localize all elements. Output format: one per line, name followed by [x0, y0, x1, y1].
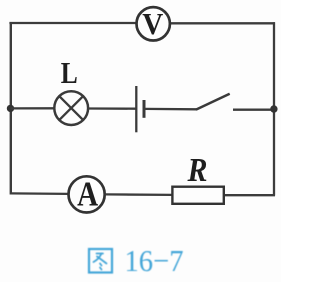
wire: switch to right rail	[233, 109, 275, 111]
wire: top rail right segment	[171, 22, 275, 24]
wire: ammeter to resistor	[106, 193, 173, 196]
battery cell	[136, 86, 144, 132]
node: right junction	[270, 105, 277, 112]
wire: resistor to right rail	[225, 194, 275, 196]
wire: bottom rail left segment	[11, 192, 68, 195]
wire: right rail	[273, 22, 275, 195]
caption glyph 图 (drawn)	[89, 249, 112, 273]
svg-text:16−7: 16−7	[125, 243, 184, 278]
switch S (open blade)	[196, 94, 230, 110]
wire: top rail left segment	[9, 22, 136, 24]
lamp L	[54, 91, 88, 125]
voltmeter V	[137, 6, 170, 41]
resistor R (box)	[172, 187, 223, 204]
wire: lamp to battery	[88, 107, 135, 109]
wire: left rail	[10, 22, 12, 195]
wire: left rail to lamp	[11, 107, 55, 109]
node: left junction	[7, 105, 14, 112]
wire: battery to switch	[145, 108, 197, 111]
ammeter A	[69, 175, 105, 214]
